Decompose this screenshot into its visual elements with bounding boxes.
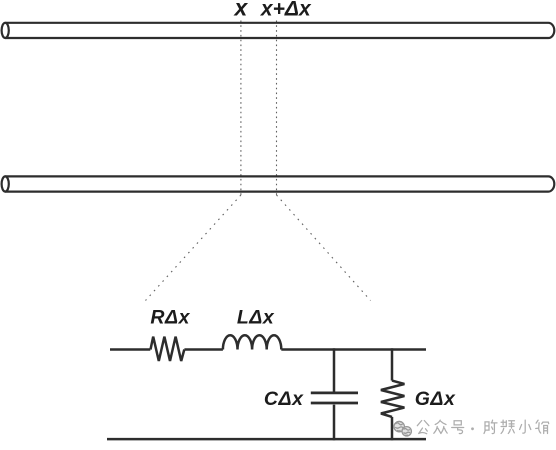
号 [452,421,464,434]
conductor rod 2 (bottom) [2,176,555,191]
capacitor branch wire upper [333,348,336,392]
conductor rod 1 (top) [2,23,555,38]
capacitor CΔx plates [311,393,358,403]
projection dotted line left [146,195,241,301]
公 [417,421,429,434]
projection dotted line right [277,195,371,301]
wire left segment [110,348,150,351]
svg-text:x+Δx: x+Δx [260,0,312,20]
射 [484,420,497,433]
众 [434,420,447,433]
svg-text:x: x [233,0,249,21]
resistor GΔx (vertical zigzag) [381,381,405,417]
watermark text 公众号·射频小馆 (hand-drawn glyphs) [417,420,548,434]
separator dot [471,427,474,430]
node x+dx dotted line [276,21,278,196]
svg-text:LΔx: LΔx [237,307,275,329]
wire top with resistor and inductor [110,335,426,361]
小 [520,420,531,433]
svg-text:CΔx: CΔx [264,388,304,410]
capacitor branch wire lower [333,405,336,441]
频 [501,420,514,433]
svg-text:GΔx: GΔx [415,388,456,410]
wire between R and L [184,348,223,351]
resistor RΔx [151,337,185,361]
馆 [536,420,549,433]
node x dotted line [240,21,242,196]
watermark logo (two scribble bubbles) [394,421,411,436]
svg-text:RΔx: RΔx [150,307,190,329]
wire bottom [107,438,426,441]
wire right segment [281,348,426,351]
conductance branch wire upper [391,348,394,380]
conductance branch wire lower [391,417,394,440]
inductor LΔx [223,335,281,349]
